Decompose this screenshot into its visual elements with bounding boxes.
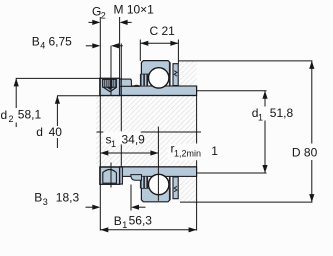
arrowhead B4 right	[111, 43, 119, 48]
dimension B4 arrow shafts	[86, 45, 93, 47]
svg-text:6,75: 6,75	[49, 34, 73, 48]
left seal assembly	[140, 74, 149, 86]
knockout box r label	[168, 144, 219, 160]
arrowhead d	[55, 96, 60, 104]
inner ring deep tab bottom	[120, 167, 123, 184]
flinger shield	[173, 64, 178, 86]
grub screw top sectioned	[103, 79, 117, 87]
dimension C line	[140, 42, 178, 44]
label s1 34,9	[106, 132, 146, 149]
ball	[149, 68, 169, 88]
arrowhead D top	[309, 61, 314, 69]
bearing mid-plane line	[157, 127, 159, 201]
arrowhead s1 right	[150, 150, 158, 155]
arrowhead B4 left	[92, 43, 100, 48]
arrowhead D bottom	[309, 194, 314, 202]
grub screw bottom outside view	[103, 169, 117, 183]
label B1 56,3	[114, 214, 152, 231]
arrowhead B1 right	[189, 227, 197, 232]
label d1 51,8	[252, 106, 294, 123]
dimension d2 line	[16, 77, 100, 79]
svg-text:2: 2	[9, 114, 14, 124]
locking collar bottom	[100, 167, 120, 184]
extension line collar right face	[120, 44, 122, 132]
arrowhead d1 top	[262, 91, 267, 99]
label d 40	[36, 125, 62, 139]
svg-text:3: 3	[43, 197, 48, 207]
svg-text:B: B	[32, 34, 40, 48]
svg-text:1: 1	[111, 139, 116, 149]
outer ring right face shoulder	[169, 63, 171, 86]
dimension d1 line	[197, 90, 267, 92]
label B3 18,3	[34, 190, 79, 207]
arrowhead B3 right	[131, 205, 139, 210]
label d2 58,1	[1, 108, 42, 124]
shaft cross-hatch through bore	[96, 96, 197, 167]
svg-text:d: d	[1, 108, 8, 122]
dimension d line	[57, 95, 100, 97]
svg-text:2: 2	[101, 11, 106, 21]
svg-text:1: 1	[122, 220, 127, 230]
label G2	[92, 5, 106, 21]
grub screw axis top	[110, 46, 112, 96]
label r1,2min 1	[171, 142, 219, 159]
svg-text:B: B	[114, 214, 122, 228]
svg-text:M 10×1: M 10×1	[114, 2, 155, 16]
grub screw axis bottom	[110, 163, 112, 188]
svg-text:58,1: 58,1	[18, 108, 42, 122]
arrowhead B1 left	[100, 227, 108, 232]
dimension s1 line	[100, 152, 158, 154]
svg-text:1,2min: 1,2min	[174, 148, 201, 158]
dimension G2 arrow shafts	[89, 21, 94, 23]
inner ring sleeve	[120, 86, 197, 96]
arrowhead G2 left	[92, 20, 100, 25]
shaft axis leader	[97, 131, 104, 133]
svg-text:56,3: 56,3	[129, 214, 153, 228]
dimension D line	[179, 60, 312, 62]
bearing lower half section (mirror)	[100, 167, 197, 202]
svg-text:18,3: 18,3	[56, 190, 80, 204]
bore line	[100, 95, 197, 97]
arrowhead s1 left	[100, 150, 108, 155]
label D 80	[292, 145, 318, 159]
arrowhead C left	[140, 41, 148, 46]
svg-text:4: 4	[40, 40, 45, 50]
inner ring step piece top	[120, 79, 134, 86]
knockout box s1 label	[103, 131, 141, 144]
dimension B3 arrow shafts	[86, 206, 94, 208]
arrowhead G2 right	[120, 20, 128, 25]
svg-text:D: D	[292, 145, 301, 159]
svg-text:80: 80	[304, 145, 318, 159]
extension line G2 right	[119, 17, 121, 78]
grub screw cone point	[103, 87, 116, 91]
svg-text:40: 40	[49, 125, 63, 139]
svg-text:34,9: 34,9	[122, 132, 146, 146]
locking collar top	[100, 78, 120, 95]
svg-text:C 21: C 21	[150, 24, 176, 38]
arrowhead B3 left	[92, 205, 100, 210]
svg-text:B: B	[34, 191, 42, 205]
arrowhead C right	[170, 41, 178, 46]
svg-text:51,8: 51,8	[270, 106, 294, 120]
outer ring	[141, 61, 170, 75]
svg-text:d: d	[36, 125, 43, 139]
label B4 6,75	[32, 34, 72, 50]
eccentric recess boss bottom	[131, 175, 142, 181]
extension line inner ring right face	[196, 86, 198, 144]
bearing upper half section	[100, 61, 197, 96]
dimension B1 line	[100, 229, 196, 231]
extension line collar left face	[99, 17, 101, 231]
arrowhead d1 bottom	[262, 165, 267, 173]
svg-text:1: 1	[211, 144, 218, 158]
shaft cross-hatch right of bearing	[178, 62, 196, 202]
svg-text:1: 1	[258, 113, 263, 123]
arrowhead d2	[14, 78, 19, 86]
seal seat hump top	[134, 85, 140, 86]
